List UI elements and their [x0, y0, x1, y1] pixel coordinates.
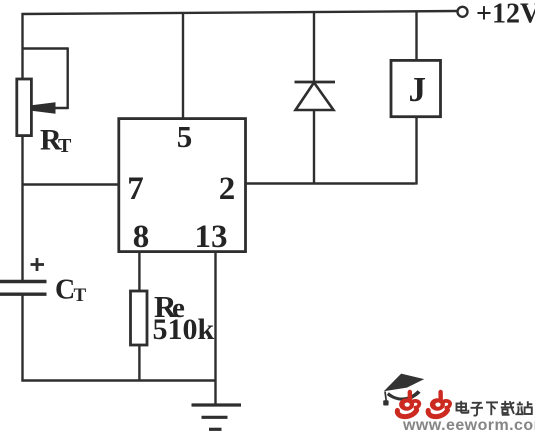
svg-text:8: 8 — [133, 219, 150, 255]
svg-text:C: C — [55, 275, 75, 306]
svg-text:+12V: +12V — [476, 0, 535, 29]
svg-text:J: J — [409, 70, 427, 109]
svg-text:www.eeworm.com: www.eeworm.com — [402, 417, 535, 432]
svg-text:7: 7 — [127, 171, 144, 207]
svg-text:T: T — [58, 135, 72, 157]
svg-text:2: 2 — [219, 171, 236, 207]
svg-text:13: 13 — [195, 219, 228, 255]
svg-text:5: 5 — [177, 119, 193, 154]
svg-text:T: T — [74, 285, 87, 306]
svg-text:510k: 510k — [153, 313, 215, 346]
